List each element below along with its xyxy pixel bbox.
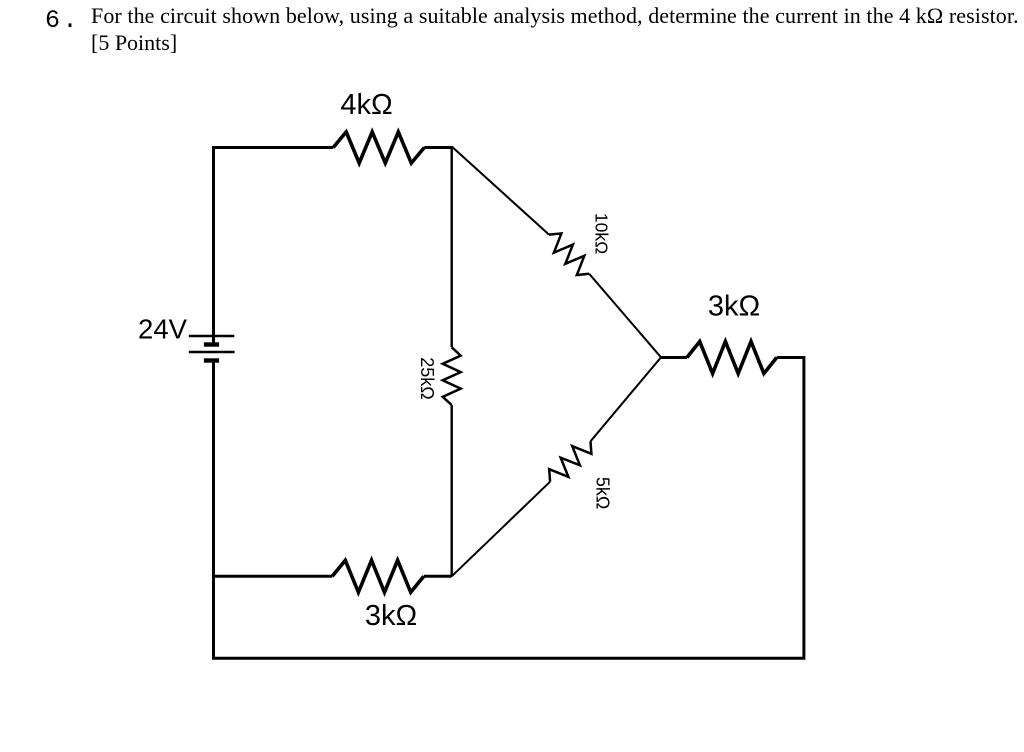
svg-text:24V: 24V — [138, 314, 188, 345]
svg-text:4kΩ: 4kΩ — [340, 89, 392, 121]
svg-text:25kΩ: 25kΩ — [417, 357, 437, 399]
svg-text:3kΩ: 3kΩ — [365, 600, 417, 632]
svg-text:10kΩ: 10kΩ — [592, 213, 612, 254]
svg-text:5kΩ: 5kΩ — [592, 477, 612, 509]
svg-text:3kΩ: 3kΩ — [708, 291, 760, 323]
